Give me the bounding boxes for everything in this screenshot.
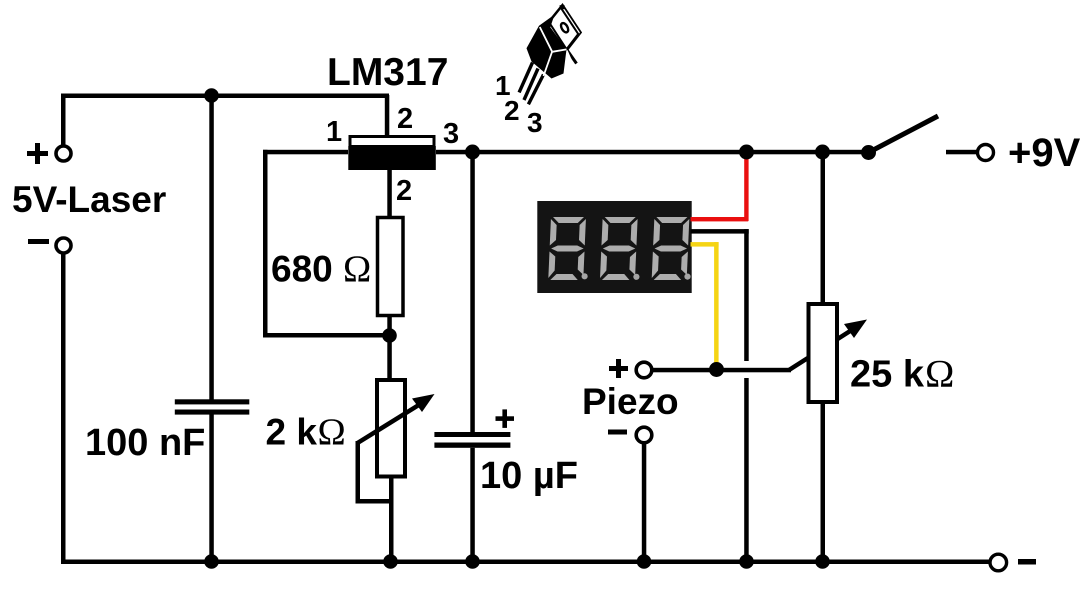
capacitor C2 10uF: [434, 432, 510, 448]
wire laser minus lead: [61, 253, 66, 563]
wire node A to R2: [387, 335, 392, 381]
wire pin2 bottom lead: [387, 170, 392, 218]
terminal piezo plus: [636, 362, 652, 378]
svg-text:Ω: Ω: [925, 352, 954, 396]
terminal laser minus: [56, 238, 71, 253]
label laser plus sign: [27, 143, 48, 164]
wire black display ground horizontal: [691, 229, 749, 234]
label laser minus sign: [28, 239, 49, 244]
wire R1 to node A: [387, 315, 392, 340]
wire black display ground vertical upper: [744, 229, 749, 361]
svg-text:3: 3: [527, 107, 543, 138]
svg-text:2: 2: [396, 175, 412, 207]
potentiometer R3 25k wiper arrow: [789, 320, 867, 371]
terminal laser plus: [56, 146, 71, 161]
svg-text:2: 2: [504, 95, 520, 126]
node junction C2 bottom rail: [465, 554, 480, 569]
wire piezo plus to pot: [652, 368, 791, 373]
svg-text:25 k: 25 k: [850, 353, 925, 395]
wire C2 bottom lead: [470, 448, 475, 563]
label piezo minus sign: [608, 430, 627, 435]
wire adj loop horizontal: [263, 333, 390, 338]
wire R2 wiper link: [356, 441, 392, 504]
terminal piezo minus: [636, 427, 652, 443]
terminal minus 9V: [990, 554, 1007, 571]
terminal +9V: [978, 145, 994, 161]
svg-text:+9V: +9V: [1008, 131, 1081, 175]
svg-text:3: 3: [443, 118, 459, 150]
label 680 ohm: [271, 249, 371, 291]
wire C1 bottom lead: [209, 414, 214, 563]
wire laser plus lead: [61, 95, 66, 146]
svg-text:Ω: Ω: [318, 412, 346, 454]
wire pin1 lead: [263, 150, 348, 155]
svg-text:LM317: LM317: [327, 51, 448, 94]
wire piezo minus lead: [642, 443, 647, 563]
label battery minus sign: [1018, 559, 1036, 565]
wire red display supply: [691, 152, 749, 221]
wire C1 top lead: [209, 95, 214, 400]
label piezo plus sign: [609, 359, 628, 378]
transistor package TO-220 drawing: [519, 5, 581, 105]
label C2 plus sign: [496, 409, 515, 428]
potentiometer R2 wiper arrow: [358, 394, 435, 443]
node junction red wire top: [739, 145, 754, 160]
node A adj junction: [382, 328, 397, 343]
wire input drop to LM317 pin2: [385, 95, 390, 136]
wire output rail top: [436, 150, 870, 155]
node junction piezo plus: [709, 362, 724, 377]
regulator U1 LM317 body: [348, 146, 436, 170]
display module 3-digit 7-segment: [537, 201, 691, 293]
wire R2 bottom lead: [389, 477, 394, 564]
potentiometer R3 25k body: [809, 304, 838, 402]
wire 9V terminal lead: [946, 150, 978, 155]
node junction R3 bottom rail: [815, 554, 830, 569]
wire adj loop vertical: [263, 150, 268, 337]
svg-text:Ω: Ω: [343, 249, 371, 291]
node junction R3 top: [815, 145, 830, 160]
regulator U1 LM317 tab: [350, 137, 434, 147]
switch S1 lever: [869, 116, 939, 153]
potentiometer R2 2k body: [377, 380, 405, 477]
svg-text:Piezo: Piezo: [582, 381, 679, 422]
node junction R2 bottom rail: [383, 554, 398, 569]
wire top-left rail: [61, 94, 389, 99]
svg-text:10 µF: 10 µF: [480, 455, 578, 497]
wire black display ground vertical lower: [744, 378, 749, 563]
wire yellow display signal: [691, 242, 719, 367]
wire bottom rail: [61, 560, 989, 565]
wire R3 bottom lead: [821, 402, 826, 563]
svg-text:2 k: 2 k: [266, 411, 318, 452]
svg-text:680: 680: [271, 249, 333, 290]
svg-text:5V-Laser: 5V-Laser: [12, 179, 166, 220]
node junction piezo minus bottom rail: [637, 554, 652, 569]
resistor R1 680 ohm: [378, 218, 404, 316]
node junction top C1: [204, 88, 219, 103]
node junction pin3: [465, 145, 480, 160]
label 25 kOhm: [850, 352, 954, 396]
svg-text:100 nF: 100 nF: [85, 422, 205, 464]
node junction bottom C1: [204, 554, 219, 569]
wire R3 top lead: [821, 152, 826, 304]
capacitor C1 100nF: [175, 399, 250, 414]
switch S1 pivot: [861, 145, 876, 160]
svg-text:2: 2: [397, 103, 413, 135]
node junction black wire bottom rail: [739, 554, 754, 569]
label 2 kOhm: [266, 411, 346, 453]
svg-text:1: 1: [326, 116, 342, 148]
wire C2 top lead: [470, 152, 475, 432]
